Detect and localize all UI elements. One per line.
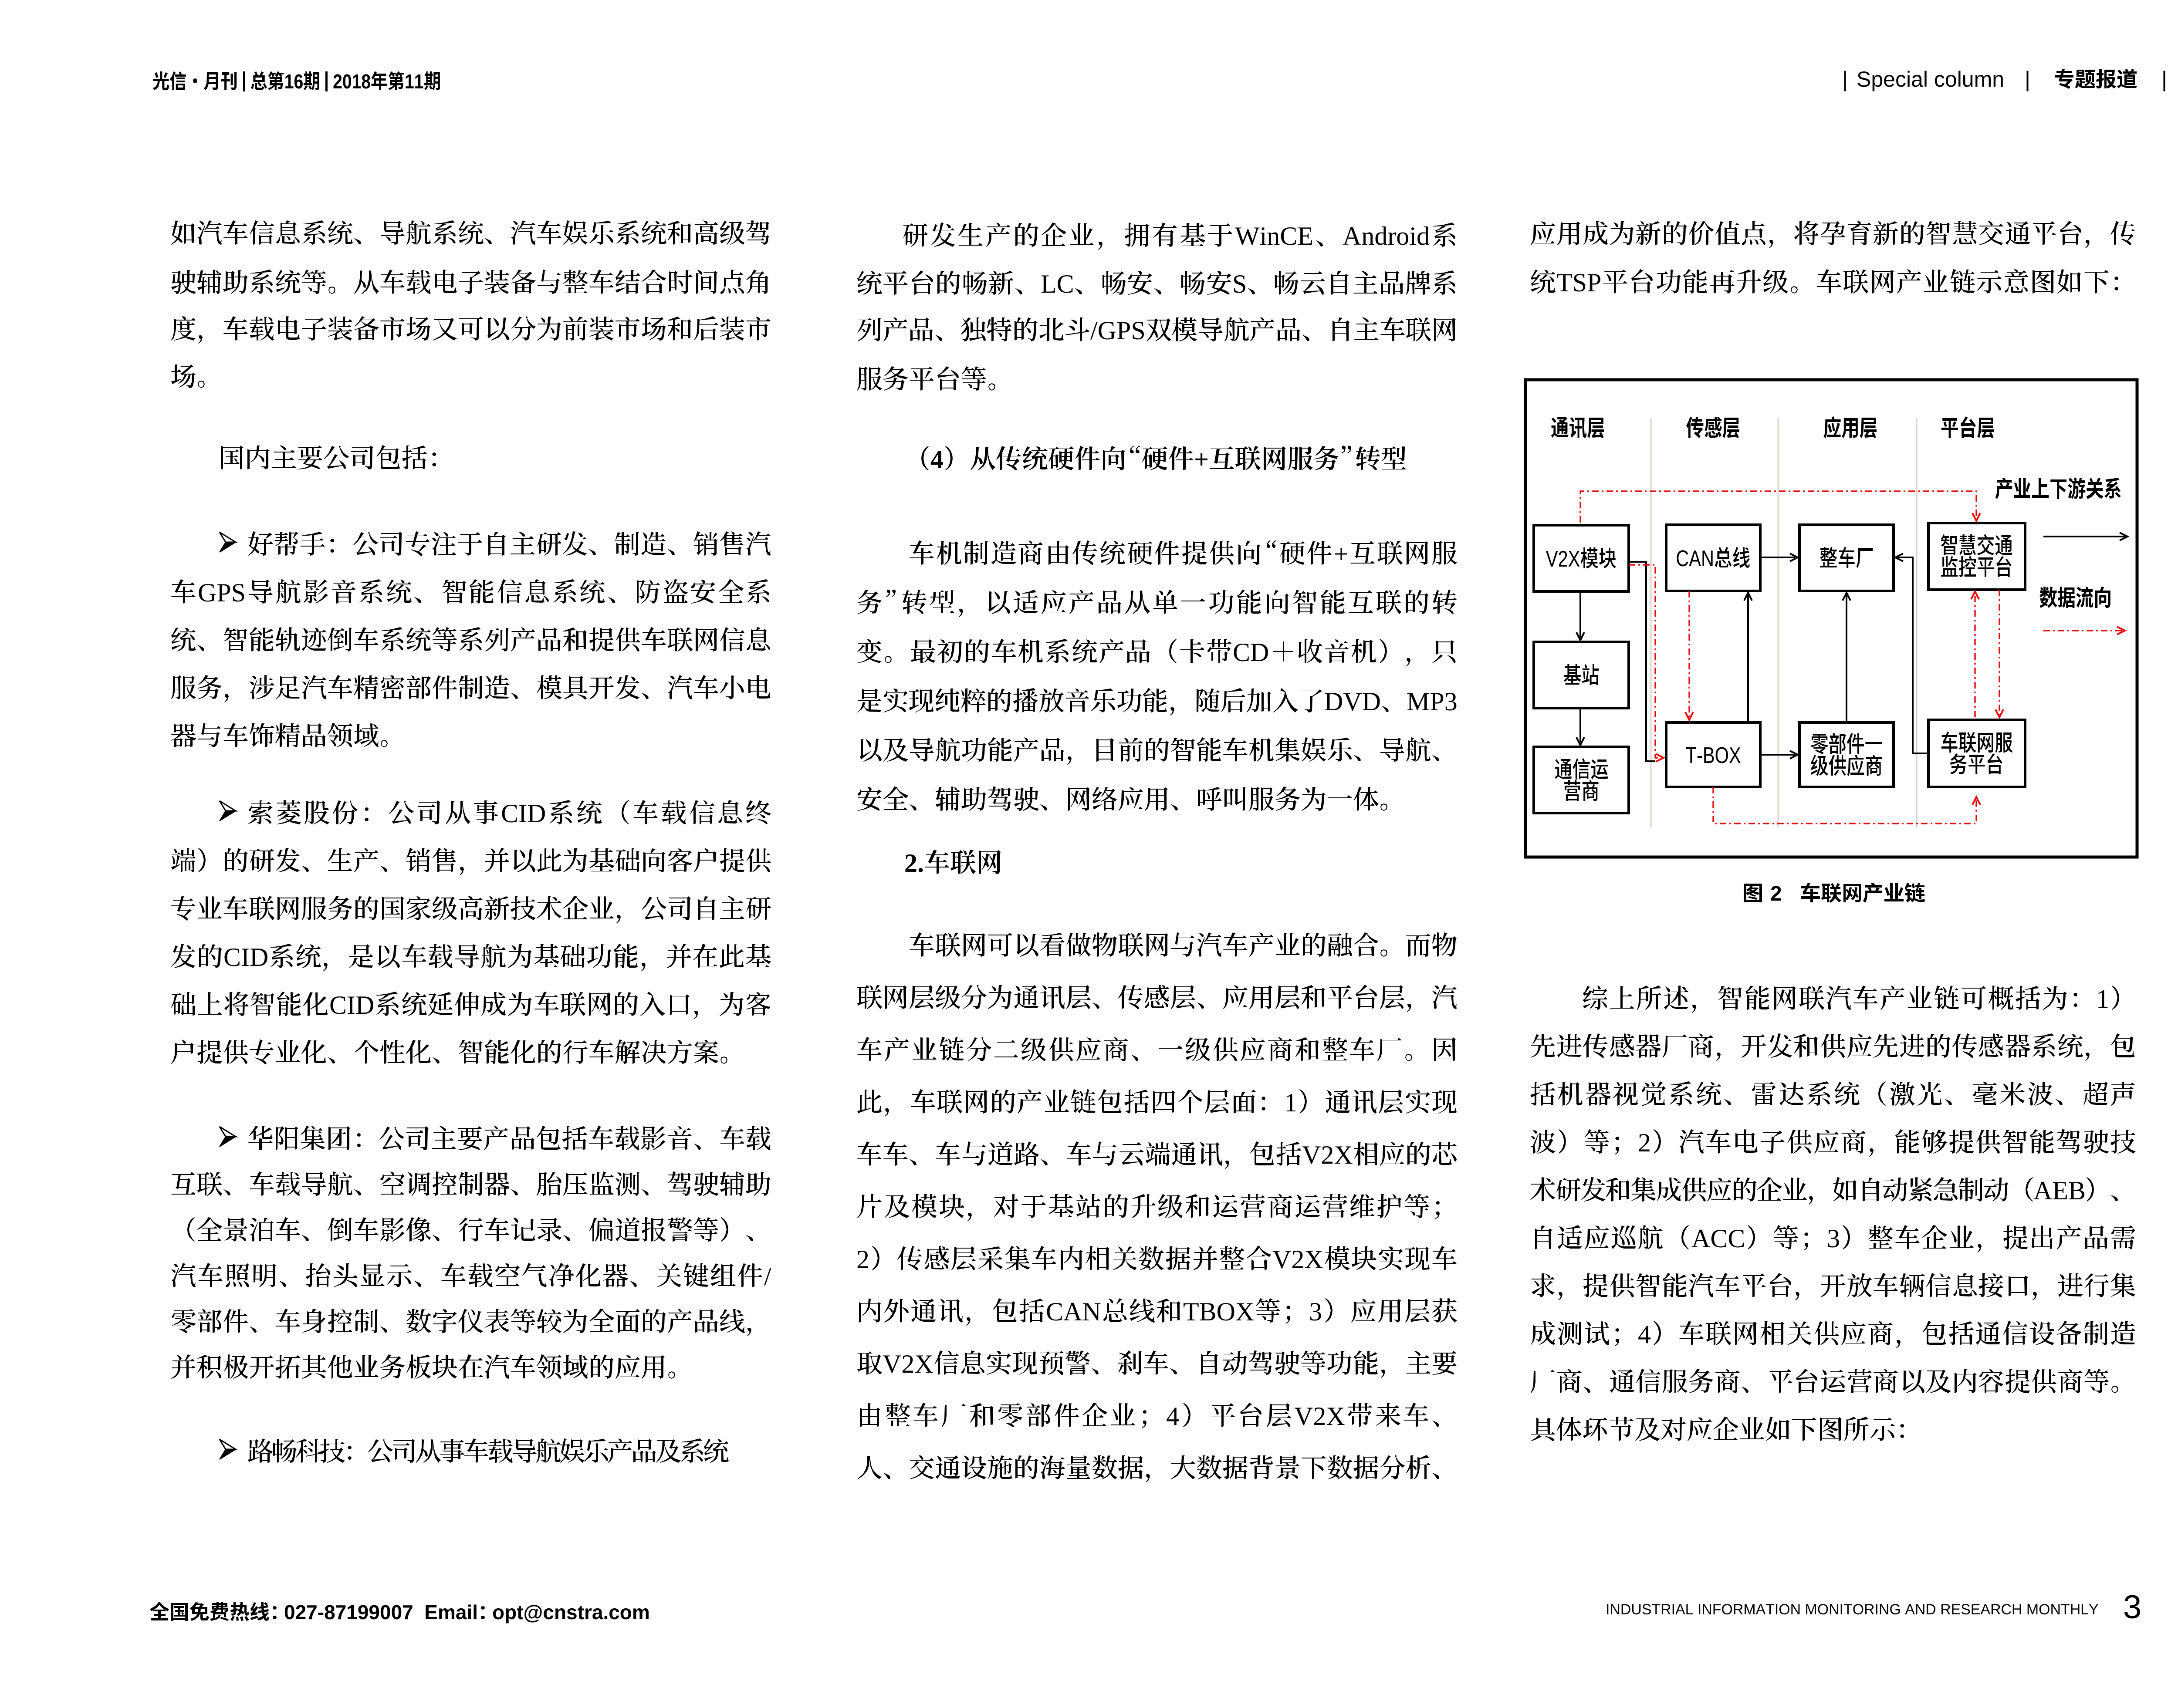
svg-text:AEB: AEB	[2033, 1176, 2086, 1205]
arrow T-BOX -> 零部件一级供应商	[1760, 754, 1795, 756]
svg-text:V2X: V2X	[883, 1350, 933, 1378]
arrow V2X模块 -> 基站	[1579, 591, 1581, 638]
svg-text:1: 1	[2096, 985, 2109, 1013]
svg-text:S: S	[1232, 270, 1247, 298]
svg-text:2: 2	[1770, 882, 1782, 905]
arrow CAN总线 -> 整车厂	[1760, 557, 1795, 558]
svg-text:TSP: TSP	[1556, 268, 1601, 297]
svg-text:2018: 2018	[333, 71, 371, 93]
legend label 产业上下游关系	[1995, 477, 2121, 499]
svg-text:CAN: CAN	[1676, 546, 1714, 571]
box 车联网服务平台	[1928, 720, 2025, 787]
svg-text:CID: CID	[501, 799, 546, 828]
box 通信运营商	[1534, 747, 1629, 813]
footer left: hotline and email	[150, 1602, 169, 1620]
svg-text:|: |	[1842, 67, 1848, 91]
figure caption 图 2 车联网产业链	[1744, 884, 1762, 902]
box 智慧交通监控平台	[1928, 523, 2025, 590]
header left: journal name	[153, 71, 237, 90]
svg-text:V2X: V2X	[1546, 546, 1580, 572]
red line 智慧交通 <-> 车联网服务 (down)	[1999, 590, 2000, 715]
layer separator lines	[1651, 418, 1917, 827]
legend black arrow	[2043, 536, 2125, 537]
layer label 传感层	[1686, 417, 1739, 438]
arrow 零部件 -> 整车厂 (up)	[1846, 594, 1847, 722]
arrow 车联网服务平台 -> 整车厂 (elbow left)	[1896, 557, 1928, 753]
svg-text:4: 4	[930, 445, 944, 474]
layer label 平台层	[1941, 416, 1994, 438]
box T-BOX	[1666, 722, 1760, 787]
svg-text:CID: CID	[329, 991, 374, 1019]
svg-text:|: |	[2025, 67, 2030, 91]
svg-text:027-87199007 Email: 027-87199007 Email	[284, 1601, 478, 1624]
svg-text:4: 4	[1638, 1320, 1651, 1349]
red line T-BOX bottom -> 车联网服务平台	[1713, 787, 1976, 824]
svg-text:3: 3	[1309, 1297, 1322, 1326]
column 1 body text	[171, 220, 195, 245]
box 基站	[1534, 642, 1629, 708]
svg-text:2.: 2.	[904, 849, 924, 878]
red line CAN总线 -> T-BOX (down)	[1688, 591, 1690, 718]
arrow T-BOX -> CAN总线 (up)	[1747, 594, 1749, 722]
box V2X模块	[1534, 525, 1629, 591]
red line V2X top to 智慧交通 (industry relation)	[1580, 491, 1976, 523]
box 整车厂	[1799, 525, 1894, 591]
svg-text:Special column: Special column	[1857, 67, 2004, 91]
column 2 body text	[903, 223, 928, 247]
svg-text:CD: CD	[1233, 638, 1269, 667]
svg-text:LC: LC	[1041, 270, 1074, 298]
svg-text:4: 4	[1166, 1402, 1179, 1431]
legend red arrow	[2043, 630, 2122, 631]
svg-text:+: +	[1334, 540, 1349, 568]
svg-text:V2X: V2X	[1272, 1245, 1323, 1274]
svg-text:CID: CID	[223, 943, 268, 972]
box 零部件一级供应商	[1799, 722, 1894, 787]
svg-text:GPS: GPS	[198, 578, 246, 607]
svg-text:ACC: ACC	[1691, 1224, 1745, 1253]
svg-text:TBOX: TBOX	[1183, 1297, 1254, 1326]
box CAN总线	[1666, 525, 1760, 591]
figure: industry chain diagram outer frame	[1525, 380, 2137, 857]
svg-text:V2X: V2X	[1302, 1141, 1353, 1169]
column 3 body text	[1531, 221, 1555, 245]
svg-text:DVD: DVD	[1324, 687, 1381, 716]
svg-text:3: 3	[1827, 1224, 1840, 1253]
svg-text:T-BOX: T-BOX	[1686, 743, 1741, 768]
red line 智慧交通 <-> 车联网服务 (up)	[1974, 592, 1975, 717]
red elbow V2X -> T-BOX	[1629, 565, 1661, 758]
heading (4) bold	[921, 446, 929, 470]
layer label 应用层	[1823, 416, 1877, 438]
legend label 数据流向	[2039, 587, 2110, 608]
svg-text:|: |	[2161, 67, 2167, 91]
svg-text:V2X: V2X	[1294, 1402, 1345, 1431]
svg-text:WinCE: WinCE	[1235, 222, 1313, 250]
svg-text:2: 2	[856, 1245, 869, 1274]
svg-text:Android: Android	[1343, 222, 1430, 250]
svg-text:CAN: CAN	[1046, 1297, 1101, 1326]
svg-text:2: 2	[1638, 1128, 1651, 1157]
svg-text:11: 11	[405, 71, 423, 93]
svg-text:+: +	[1194, 445, 1209, 474]
svg-text:16: 16	[284, 71, 303, 93]
arrow 基站 -> 通信运营商	[1579, 708, 1581, 743]
svg-text:INDUSTRIAL INFORMATION MONITOR: INDUSTRIAL INFORMATION MONITORING AND RE…	[1606, 1601, 2099, 1618]
black elbow V2X -> T-BOX	[1629, 562, 1655, 761]
svg-text:/: /	[764, 1262, 771, 1291]
layer label 通讯层	[1551, 417, 1604, 438]
svg-text:3: 3	[2123, 1589, 2141, 1626]
svg-text:1: 1	[1284, 1088, 1297, 1117]
svg-text:MP3: MP3	[1407, 687, 1458, 716]
svg-text:opt@cnstra.com: opt@cnstra.com	[492, 1601, 650, 1624]
svg-text:/GPS: /GPS	[1090, 316, 1146, 345]
